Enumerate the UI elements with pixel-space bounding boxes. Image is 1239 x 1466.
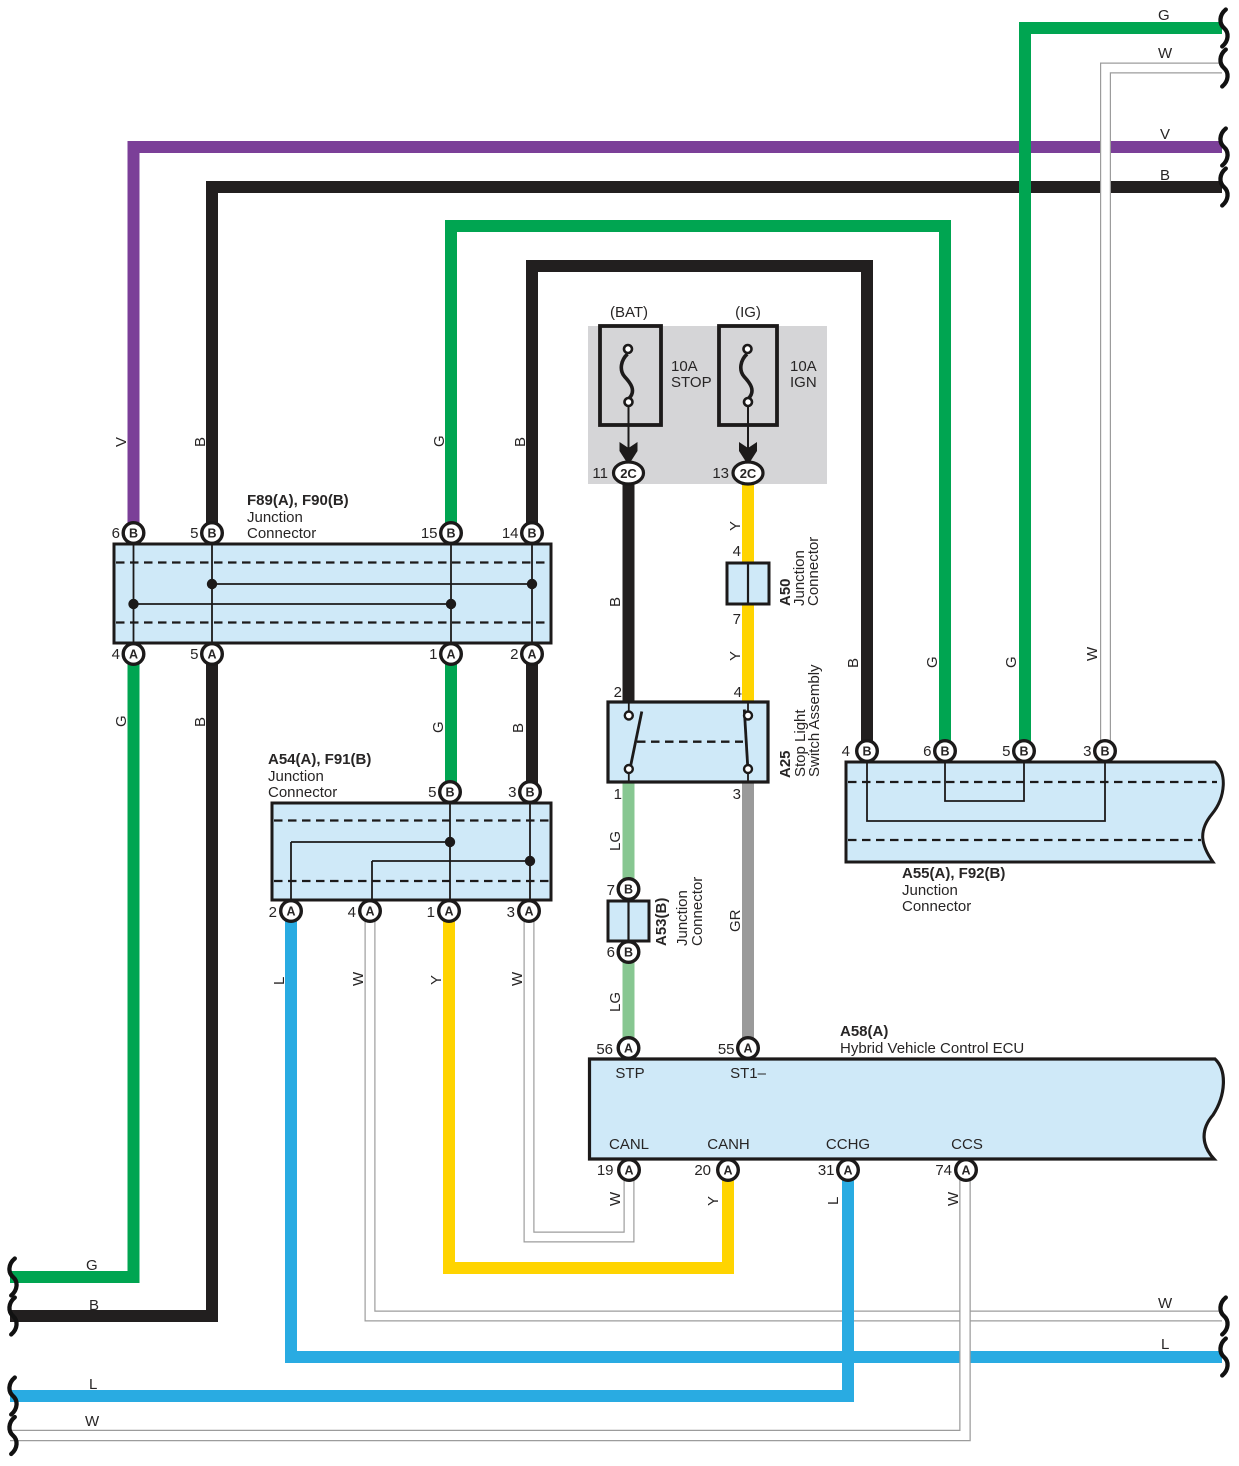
svg-text:L: L: [89, 1376, 97, 1393]
svg-text:GR: GR: [727, 909, 744, 932]
svg-text:CANL: CANL: [609, 1136, 649, 1153]
svg-text:G: G: [924, 656, 941, 668]
svg-text:3: 3: [508, 784, 516, 801]
svg-text:4: 4: [842, 743, 850, 760]
svg-text:A54(A), F91(B): A54(A), F91(B): [268, 751, 371, 768]
svg-text:15: 15: [421, 525, 438, 542]
svg-text:STOP: STOP: [671, 374, 712, 391]
svg-text:L: L: [1161, 1336, 1169, 1353]
svg-text:(IG): (IG): [735, 304, 761, 321]
svg-text:6: 6: [607, 944, 615, 961]
svg-text:2C: 2C: [740, 466, 757, 481]
svg-text:G: G: [113, 715, 130, 727]
svg-text:B: B: [607, 597, 624, 607]
svg-text:V: V: [1160, 126, 1170, 143]
svg-text:5: 5: [190, 525, 198, 542]
svg-text:Connector: Connector: [805, 537, 822, 606]
svg-text:CANH: CANH: [707, 1136, 750, 1153]
svg-text:G: G: [430, 721, 447, 733]
svg-text:W: W: [1158, 45, 1173, 62]
svg-text:Y: Y: [727, 521, 744, 531]
svg-text:Connector: Connector: [689, 877, 706, 946]
svg-text:6: 6: [112, 525, 120, 542]
svg-text:L: L: [825, 1197, 842, 1205]
svg-text:Y: Y: [428, 975, 445, 985]
svg-text:Y: Y: [705, 1196, 722, 1206]
svg-text:Connector: Connector: [268, 784, 337, 801]
svg-text:4: 4: [348, 904, 356, 921]
svg-text:Switch Assembly: Switch Assembly: [806, 664, 823, 777]
svg-text:74: 74: [935, 1162, 952, 1179]
svg-text:14: 14: [502, 525, 519, 542]
svg-text:F89(A), F90(B): F89(A), F90(B): [247, 492, 349, 509]
svg-text:55: 55: [718, 1041, 735, 1058]
svg-text:Junction: Junction: [902, 882, 958, 899]
svg-text:5: 5: [428, 784, 436, 801]
svg-text:W: W: [350, 971, 367, 986]
svg-text:W: W: [1158, 1295, 1173, 1312]
svg-text:5: 5: [190, 646, 198, 663]
svg-text:3: 3: [733, 786, 741, 803]
svg-text:3: 3: [1083, 743, 1091, 760]
svg-text:W: W: [945, 1191, 962, 1206]
svg-text:Y: Y: [727, 651, 744, 661]
svg-text:Hybrid Vehicle Control ECU: Hybrid Vehicle Control ECU: [840, 1040, 1024, 1057]
svg-text:31: 31: [818, 1162, 835, 1179]
svg-text:G: G: [86, 1257, 98, 1274]
svg-text:4: 4: [112, 646, 120, 663]
svg-text:2C: 2C: [620, 466, 637, 481]
svg-text:4: 4: [733, 543, 741, 560]
svg-text:19: 19: [597, 1162, 614, 1179]
svg-text:Connector: Connector: [902, 898, 971, 915]
svg-text:IGN: IGN: [790, 374, 817, 391]
svg-text:A53(B): A53(B): [653, 898, 670, 946]
svg-text:LG: LG: [607, 831, 624, 851]
svg-text:1: 1: [614, 786, 622, 803]
svg-text:B: B: [512, 437, 529, 447]
svg-text:W: W: [1084, 646, 1101, 661]
svg-text:5: 5: [1002, 743, 1010, 760]
svg-text:A58(A): A58(A): [840, 1023, 888, 1040]
svg-text:Junction: Junction: [247, 509, 303, 526]
svg-text:10A: 10A: [671, 358, 698, 375]
svg-text:6: 6: [923, 743, 931, 760]
svg-text:2: 2: [269, 904, 277, 921]
svg-text:W: W: [607, 1191, 624, 1206]
svg-text:STP: STP: [615, 1065, 644, 1082]
svg-text:ST1–: ST1–: [730, 1065, 767, 1082]
svg-text:B: B: [845, 658, 862, 668]
svg-text:11: 11: [592, 465, 608, 482]
svg-text:7: 7: [607, 882, 615, 899]
svg-text:W: W: [85, 1413, 100, 1430]
svg-text:2: 2: [614, 684, 622, 701]
svg-text:7: 7: [733, 611, 741, 628]
svg-text:3: 3: [507, 904, 515, 921]
svg-text:13: 13: [712, 465, 729, 482]
svg-text:G: G: [1003, 656, 1020, 668]
svg-text:B: B: [192, 437, 209, 447]
svg-text:CCHG: CCHG: [826, 1136, 870, 1153]
svg-text:Connector: Connector: [247, 525, 316, 542]
svg-text:1: 1: [429, 646, 437, 663]
svg-text:(BAT): (BAT): [610, 304, 648, 321]
svg-text:G: G: [431, 435, 448, 447]
svg-text:10A: 10A: [790, 358, 817, 375]
svg-text:56: 56: [596, 1041, 613, 1058]
svg-text:B: B: [89, 1297, 99, 1314]
svg-text:20: 20: [694, 1162, 711, 1179]
svg-text:W: W: [509, 971, 526, 986]
svg-text:A55(A), F92(B): A55(A), F92(B): [902, 865, 1005, 882]
svg-text:2: 2: [510, 646, 518, 663]
svg-text:G: G: [1158, 7, 1170, 24]
svg-text:B: B: [192, 717, 209, 727]
svg-text:LG: LG: [607, 992, 624, 1012]
svg-text:Junction: Junction: [268, 768, 324, 785]
svg-text:1: 1: [427, 904, 435, 921]
svg-text:CCS: CCS: [951, 1136, 983, 1153]
svg-text:L: L: [271, 977, 288, 985]
svg-text:B: B: [1160, 167, 1170, 184]
svg-text:B: B: [510, 723, 527, 733]
svg-text:V: V: [113, 437, 130, 447]
svg-text:4: 4: [734, 684, 742, 701]
